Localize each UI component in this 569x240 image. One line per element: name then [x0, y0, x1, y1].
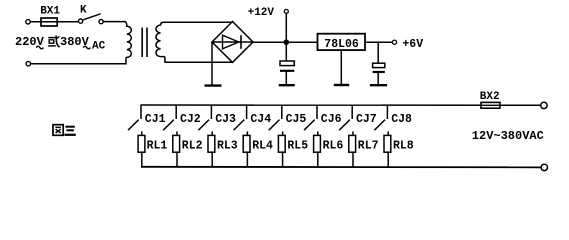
bridge diode	[223, 35, 239, 49]
bottom AC bus	[141, 166, 541, 169]
svg-text:K: K	[80, 5, 87, 17]
svg-text:RL8: RL8	[393, 140, 414, 153]
svg-text:12V~380VAC: 12V~380VAC	[472, 129, 544, 143]
svg-text:RL6: RL6	[323, 140, 344, 153]
svg-text:380V: 380V	[60, 35, 90, 49]
ground C1	[279, 84, 295, 86]
relay RL3 coil	[211, 131, 213, 135]
svg-text:RL5: RL5	[287, 140, 308, 153]
svg-text:RL2: RL2	[182, 140, 203, 153]
relay RL5 coil	[282, 131, 284, 135]
relay RL6 coil	[317, 131, 319, 135]
switch CJ4	[234, 105, 247, 130]
transformer core	[141, 28, 143, 58]
capacitor C2	[377, 42, 379, 63]
label 或 glyph	[48, 36, 59, 48]
junction	[284, 39, 290, 45]
svg-text:CJ6: CJ6	[321, 113, 342, 126]
wire	[103, 21, 125, 23]
svg-text:CJ8: CJ8	[391, 113, 412, 126]
ground bridge	[211, 42, 213, 85]
terminal input top	[26, 20, 30, 24]
switch CJ3	[198, 105, 211, 130]
svg-text:CJ2: CJ2	[180, 113, 201, 126]
wire secondary bottom to bridge	[165, 57, 233, 63]
svg-text:RL1: RL1	[147, 140, 168, 153]
wire secondary top to bridge	[163, 21, 233, 23]
switch CJ6	[304, 105, 317, 130]
switch CJ1	[128, 105, 141, 130]
wire +6V rail	[365, 41, 392, 43]
fuse BX2	[481, 102, 500, 108]
switch CJ8	[374, 105, 387, 130]
relay RL4 coil	[246, 131, 248, 135]
relay RL1 coil	[141, 131, 143, 135]
svg-text:CJ4: CJ4	[250, 113, 271, 126]
svg-text:78L06: 78L06	[324, 38, 359, 51]
svg-text:+12V: +12V	[248, 7, 275, 19]
svg-text:RL7: RL7	[358, 140, 379, 153]
svg-text:CJ3: CJ3	[215, 113, 236, 126]
relay RL8 coil	[387, 131, 389, 135]
fuse BX1	[41, 18, 57, 26]
switch CJ7	[339, 105, 352, 130]
relay RL7 coil	[352, 131, 354, 135]
wire	[31, 57, 126, 64]
wire up to +12V terminal	[285, 13, 287, 42]
switch CJ2	[163, 105, 176, 130]
relay RL2 coil	[176, 131, 178, 135]
capacitor C1	[285, 42, 287, 61]
terminal AC bottom	[541, 164, 547, 170]
ground U1	[340, 50, 342, 84]
svg-text:RL4: RL4	[252, 140, 273, 153]
ground C2	[370, 84, 387, 86]
switch CJ5	[269, 105, 282, 130]
svg-text:CJ1: CJ1	[145, 113, 166, 126]
svg-text:AC: AC	[92, 40, 106, 52]
terminal input bottom	[26, 62, 30, 66]
regulator U1 78L06	[318, 34, 366, 50]
svg-text:CJ5: CJ5	[286, 113, 307, 126]
bridge internal wire	[212, 41, 253, 43]
transformer T1 secondary coil	[156, 22, 165, 56]
switch K	[79, 14, 104, 24]
terminal AC top	[541, 102, 547, 108]
svg-text:RL3: RL3	[217, 140, 238, 153]
svg-text:+6V: +6V	[402, 38, 423, 51]
svg-text:BX1: BX1	[40, 6, 60, 18]
label 图三	[53, 125, 76, 136]
terminal +6V	[392, 40, 396, 44]
wire	[30, 21, 78, 23]
relay cells	[128, 105, 145, 167]
top AC bus	[141, 104, 541, 106]
svg-text:CJ7: CJ7	[356, 113, 377, 126]
svg-text:BX2: BX2	[480, 91, 500, 103]
bridge rectifier	[212, 22, 253, 63]
transformer T1 primary coil	[125, 22, 131, 58]
terminal +12V	[284, 9, 288, 13]
wire +12V rail	[253, 41, 318, 43]
